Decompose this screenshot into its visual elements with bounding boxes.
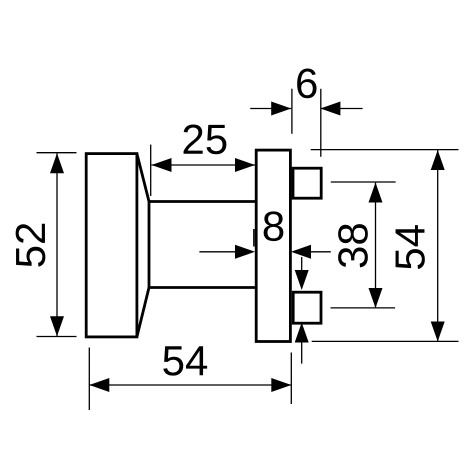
dim 54 bottom: right extension line (290, 353, 292, 405)
dim 54 right: top extension line (311, 149, 459, 151)
spindle hole edge on plate (253, 229, 255, 247)
knob cone top slant (137, 154, 149, 202)
dim 6: left arrow tail (250, 108, 291, 110)
dim 6: right arrow (points left) (320, 102, 340, 116)
screw height arrow up (295, 323, 309, 343)
dim 38: dimension line (375, 183, 377, 308)
top screw boss (293, 168, 321, 198)
dim 25: right arrow (235, 158, 255, 172)
bottom screw boss (293, 292, 321, 323)
label 54 bottom (163, 346, 183, 375)
dim 6: left extension line (291, 89, 293, 134)
dim 6: left arrow (points right) (271, 102, 291, 116)
dim 54 bottom: right arrow (271, 378, 291, 392)
dim 6: right extension line (320, 89, 322, 157)
label 25 (184, 124, 203, 153)
label 6 (297, 68, 316, 98)
dim 38: top arrow (up) (369, 183, 383, 203)
dim 8: left arrow tail (199, 251, 244, 253)
dim 54 bottom: dimension line (89, 384, 291, 386)
dim 38: bottom extension line (331, 307, 396, 309)
dim 52: bottom arrow (down) (50, 316, 64, 336)
dim 52: bottom extension line (37, 336, 77, 338)
screw height leader lower (301, 342, 303, 364)
dim 54 right: bottom arrow (down) (431, 322, 445, 342)
knob cone base edge (148, 200, 151, 289)
dim 52: dimension line (56, 153, 58, 336)
dim 54 bottom: left extension line (88, 348, 90, 411)
dim 38: bottom arrow (down) (369, 288, 383, 308)
screw height leader upper (301, 257, 303, 271)
knob neck top line (149, 200, 256, 203)
dim 8: right arrow tail (302, 251, 331, 253)
label 8 (264, 211, 284, 241)
rose plate (256, 150, 290, 341)
dim 8: left arrow (points right) (235, 245, 255, 259)
dim 38: top extension line (331, 181, 396, 183)
dim 25: dimension line (152, 164, 256, 166)
dim 54 right: dimension line (437, 150, 439, 342)
dim 6: right arrow tail (320, 108, 362, 110)
dim 52: top arrow (up) (50, 153, 64, 173)
label 38 (rotated) (338, 247, 368, 267)
label 52 (rotated) (16, 247, 45, 267)
knob disc (front face, side view) (86, 154, 137, 337)
knob neck bottom line (149, 286, 256, 289)
dim 8: right arrow (points left) (291, 245, 311, 259)
dim 25: left arrow (152, 158, 172, 172)
knob cone bottom slant (137, 288, 149, 337)
dim 54 bottom: left arrow (89, 378, 109, 392)
dim 54 right: bottom extension line (312, 340, 459, 342)
dim 25: left extension line (150, 145, 152, 196)
dim 54 right: top arrow (up) (431, 150, 445, 170)
label 54 right (rotated) (396, 249, 425, 269)
screw height arrow down (295, 270, 309, 290)
dim 52: top extension line (37, 152, 77, 154)
